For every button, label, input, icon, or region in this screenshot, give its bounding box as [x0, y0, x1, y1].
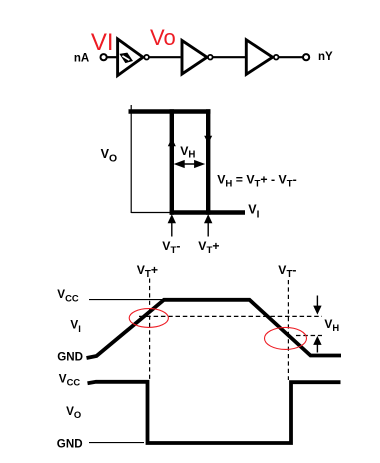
inverter U1 (Schmitt trigger) — [118, 39, 143, 76]
svg-text:GND: GND — [57, 438, 83, 451]
inverter U3 — [246, 40, 272, 75]
svg-text:VI: VI — [91, 29, 114, 56]
hysteresis curve: left vertical (rising branch) — [170, 109, 174, 214]
wire U2 to U3 — [213, 56, 245, 58]
hysteresis curve: right vertical (falling branch) — [206, 109, 210, 214]
thin VCC reference line — [89, 299, 163, 301]
svg-text:nY: nY — [318, 51, 333, 63]
bubble U3 output — [274, 55, 279, 60]
dashed horizontal at VT+ level — [139, 315, 322, 317]
svg-text:VT+: VT+ — [137, 263, 158, 280]
svg-text:VI: VI — [70, 319, 80, 334]
arrow marker VT+ (below axis) — [205, 216, 211, 237]
arrowhead down on falling branch — [204, 136, 212, 144]
hysteresis symbol inside U1 — [119, 53, 133, 64]
svg-text:VH: VH — [324, 317, 339, 333]
wire U3 to nY — [279, 56, 303, 58]
svg-text:VO: VO — [101, 147, 118, 164]
hysteresis plot: VO axis (thin vertical) — [130, 105, 132, 213]
up arrow to VT- level — [314, 338, 320, 353]
double arrow VH width — [176, 161, 204, 167]
red ellipse at VT+ crossing — [129, 309, 168, 328]
wire U1 to U2 — [149, 56, 180, 58]
hysteresis plot: thin bottom axis segment — [131, 212, 170, 214]
bubble U1 output — [144, 55, 149, 60]
bubble U2 output — [208, 55, 213, 60]
hysteresis curve: top line — [129, 109, 211, 113]
svg-text:VCC: VCC — [59, 372, 81, 387]
terminal nA — [101, 54, 107, 60]
VO waveform — [88, 382, 341, 443]
svg-text:Vo: Vo — [150, 25, 176, 50]
svg-text:nA: nA — [74, 53, 89, 65]
svg-text:VT+: VT+ — [198, 239, 219, 256]
svg-text:VH: VH — [180, 144, 195, 161]
terminal nY — [303, 54, 309, 60]
svg-text:VH = VT+ - VT-: VH = VT+ - VT- — [217, 173, 297, 190]
svg-text:GND: GND — [57, 351, 83, 364]
inverter U2 — [182, 41, 207, 75]
dashed vertical at VT+ crossing — [149, 279, 151, 382]
wire nA to U1 — [107, 56, 116, 58]
svg-text:VO: VO — [66, 405, 81, 420]
thin GND reference line — [89, 442, 144, 444]
dashed vertical at VT- crossing — [287, 280, 289, 380]
arrow marker VT- (below axis) — [169, 216, 175, 237]
VI waveform — [87, 300, 342, 358]
svg-text:VI: VI — [248, 203, 259, 221]
down arrow to VT+ level — [314, 296, 320, 314]
hysteresis curve: bottom line (VI axis) — [170, 210, 245, 215]
svg-text:VCC: VCC — [57, 288, 79, 303]
svg-text:VT-: VT- — [162, 239, 180, 256]
red ellipse at VT- crossing — [265, 327, 307, 349]
dashed horizontal at VT- level — [296, 335, 322, 337]
arrowhead up on rising branch — [168, 138, 176, 146]
svg-text:VT-: VT- — [278, 263, 296, 280]
